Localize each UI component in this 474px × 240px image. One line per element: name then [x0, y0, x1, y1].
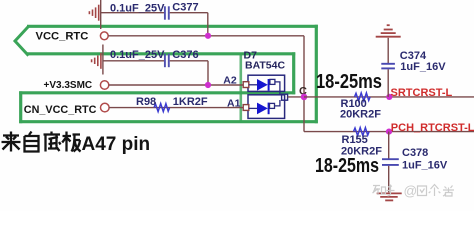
diode D7 lower cathode bar — [268, 103, 270, 115]
diode D7 upper cathode bar — [268, 79, 270, 91]
ground GND1 (sideways) — [89, 5, 98, 21]
highlight top line — [27, 25, 318, 28]
wire C377 left — [101, 12, 164, 14]
junction on VCC_RTC — [205, 33, 211, 39]
svg-text:1uF_16V: 1uF_16V — [402, 160, 448, 172]
wire VCC_RTC — [108, 35, 304, 37]
svg-text:+V3.3SMC: +V3.3SMC — [44, 80, 93, 91]
svg-text:A2: A2 — [223, 75, 237, 87]
wire C376 left — [103, 60, 164, 62]
svg-text:C376: C376 — [172, 49, 198, 61]
annotation chinese 来自底板A47 pin — [2, 132, 81, 152]
highlight bottom line — [19, 120, 318, 123]
junction on +V3.3SMC — [205, 82, 211, 88]
svg-text:C378: C378 — [402, 147, 428, 159]
wire vertical stub row2 — [102, 45, 104, 75]
svg-text:VCC_RTC: VCC_RTC — [36, 30, 89, 42]
svg-text:@: @ — [404, 184, 418, 199]
junction PCH_RTCRST — [386, 129, 392, 135]
diode D7 upper triangle — [257, 79, 268, 91]
wire C378 lower stem — [388, 166, 390, 193]
ground GND4 below C378 — [377, 193, 402, 200]
wire PCH_RTCRST row — [304, 131, 474, 133]
wire C374 lower stem — [387, 69, 389, 97]
wire C378 upper stem — [388, 132, 390, 159]
svg-text:BAT54C: BAT54C — [245, 60, 285, 72]
resistor R98 — [154, 104, 170, 112]
diode D7 upper anode lead — [249, 84, 257, 86]
watermark 知乎 @问个芯 — [373, 185, 455, 197]
diode D7 lower triangle — [257, 103, 268, 115]
diode D7 upper cathode link wire — [275, 82, 280, 95]
char 板 — [62, 132, 80, 152]
wire SRTCRST row — [304, 96, 474, 98]
junction SRTCRST — [386, 94, 392, 100]
highlight arrow VCC_RTC (green annotation) — [15, 26, 29, 55]
wire VCC_RTC down to C — [303, 36, 305, 132]
diode D7 lower anode lead — [249, 107, 257, 109]
svg-text:18-25ms: 18-25ms — [316, 69, 382, 92]
svg-text:R98: R98 — [136, 96, 156, 108]
capacitor C378 — [382, 159, 399, 165]
svg-text:C377: C377 — [172, 2, 198, 14]
node +V3.3SMC circle — [100, 81, 108, 89]
ground GND2 (sideways) — [92, 53, 101, 69]
ground GND3 above C374 — [376, 25, 401, 37]
highlight right vertical — [315, 25, 318, 124]
wire diode pin to node C — [288, 96, 304, 98]
char 自 — [25, 132, 39, 152]
highlight CN box top line — [19, 91, 295, 94]
wire C376 right — [170, 60, 208, 62]
node VCC_RTC circle — [100, 32, 108, 40]
wire C377 drop — [207, 13, 209, 36]
char 底 — [44, 132, 61, 152]
svg-text:CN_VCC_RTC: CN_VCC_RTC — [24, 104, 97, 116]
svg-text:R155: R155 — [342, 134, 368, 146]
diode D7 lower cathode square — [270, 103, 275, 108]
wire C376 drop — [207, 61, 209, 85]
wire C377 right — [170, 12, 208, 14]
svg-text:1uF_16V: 1uF_16V — [400, 61, 446, 73]
pin square A1 — [243, 105, 249, 111]
svg-text:0.1uF_25V: 0.1uF_25V — [110, 49, 165, 61]
diode D7 upper cathode square — [270, 79, 275, 84]
highlight arrow bottom line — [27, 52, 295, 55]
char 来 — [2, 132, 21, 152]
node CN_VCC_RTC circle — [101, 103, 110, 112]
svg-text:PCH_RTCRST-L: PCH_RTCRST-L — [391, 122, 474, 134]
svg-text:20KR2F: 20KR2F — [340, 108, 381, 120]
highlight D7 box left vertical — [240, 54, 243, 122]
diode D7 common cathode pin square — [282, 94, 288, 100]
highlight vertical x293 — [292, 52, 295, 94]
resistor R155 — [354, 128, 370, 136]
diode D7 lower body box — [248, 95, 285, 119]
wire +V3.3SMC — [109, 84, 244, 86]
wire CN_VCC_RTC — [109, 107, 243, 109]
wire C374 upper stem — [387, 38, 389, 63]
junction node C — [301, 94, 308, 101]
wire vertical stub above ground 1 — [100, 0, 102, 29]
pin square A2 — [243, 82, 249, 88]
diode D7 upper body box — [248, 75, 285, 91]
svg-text:C374: C374 — [400, 50, 427, 62]
svg-text:18-25ms: 18-25ms — [315, 154, 379, 176]
svg-text:1KR2F: 1KR2F — [173, 96, 208, 108]
svg-text:SRTCRST-L: SRTCRST-L — [391, 87, 453, 99]
svg-text:A1: A1 — [227, 97, 241, 109]
capacitor C377 — [165, 6, 169, 19]
resistor R100 — [355, 93, 371, 101]
highlight CN box left vertical — [19, 91, 22, 123]
svg-text:0.1uF_25V: 0.1uF_25V — [110, 2, 165, 14]
capacitor C376 — [165, 54, 169, 68]
svg-text:A47 pin: A47 pin — [82, 134, 151, 155]
diode D7 lower cathode link wire — [275, 100, 280, 106]
capacitor C374 — [381, 64, 395, 69]
